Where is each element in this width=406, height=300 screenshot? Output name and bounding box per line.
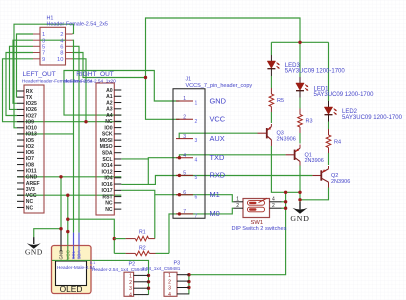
wire Q1 emitter to GND symbol [299, 166, 301, 203]
wire VCC branch to R1 R2 [68, 219, 115, 253]
wire R4 to Q2 collector [328, 148, 330, 154]
svg-text:5AY3UC09 1200-1700: 5AY3UC09 1200-1700 [314, 92, 375, 98]
svg-text:10: 10 [57, 57, 63, 63]
svg-text:IO4: IO4 [104, 176, 112, 182]
resistor R2 [114, 252, 125, 254]
ground symbol left [33, 237, 35, 244]
wire OLED right to P2 pins [91, 260, 149, 294]
svg-text:VCCS_7_pin_header_copy: VCCS_7_pin_header_copy [186, 83, 253, 89]
wire H1 pin6 to OLED SDA [73, 46, 80, 232]
Q3 pins red [258, 132, 267, 134]
connector P2 box [124, 272, 134, 296]
wire LED3 anode drop [270, 42, 272, 55]
svg-text:Header-Fema-2.54_1x20: Header-Fema-2.54_1x20 [64, 78, 117, 83]
svg-text:IO9: IO9 [26, 119, 34, 125]
wire VCC trunk J1 pin2 to LED rail [146, 18, 301, 119]
svg-text:A3: A3 [106, 107, 113, 113]
svg-text:7: 7 [183, 209, 186, 215]
wire Q3 emitter rail to GND [271, 146, 300, 192]
wire LED1 anode drop [299, 42, 301, 77]
svg-text:M0: M0 [210, 209, 220, 218]
svg-text:R4: R4 [334, 140, 341, 146]
svg-text:NC: NC [105, 201, 113, 207]
svg-text:VCC: VCC [210, 115, 226, 124]
svg-text:1: 1 [42, 32, 45, 38]
svg-text:RXD: RXD [210, 171, 226, 180]
svg-text:IO5: IO5 [26, 138, 34, 144]
wire through H1 pins 3-4 [40, 39, 66, 41]
wire LED anode rail [271, 41, 328, 43]
svg-text:IO0: IO0 [104, 125, 112, 131]
svg-text:A2: A2 [106, 100, 113, 106]
OLED pin leads inside [60, 246, 62, 252]
wire M1 from RIGHT_OUT IO17 to J1 pin6 [121, 190, 179, 194]
svg-text:1: 1 [183, 96, 186, 102]
transistor Q3 [266, 128, 268, 138]
svg-text:SDA: SDA [102, 151, 113, 157]
svg-text:9: 9 [42, 57, 45, 63]
wire TXD from RIGHT_OUT SCL to J1 pin4 [121, 158, 179, 159]
wire across OLED to P2 [52, 259, 91, 261]
svg-text:5.1: 5.1 [90, 260, 96, 265]
LED LED2 [324, 107, 332, 114]
H1 left pin stubs [33, 33, 40, 35]
wire H1 pin5 to LEFT_OUT IO26 [10, 46, 34, 109]
svg-text:2: 2 [272, 203, 275, 209]
svg-text:NC: NC [105, 119, 113, 125]
RIGHT_OUT pin stubs [114, 89, 121, 91]
svg-text:NC: NC [26, 205, 34, 211]
wire H1 pin8 to VCC rail [73, 53, 146, 78]
svg-text:IO25: IO25 [26, 101, 37, 107]
LED1 pins [299, 77, 301, 83]
wire H1 pin2 loop to LEFT_OUT IO10 [14, 24, 74, 128]
SW1 slots [248, 201, 265, 206]
svg-text:IO10: IO10 [26, 126, 37, 132]
svg-text:2N3906: 2N3906 [277, 136, 296, 142]
svg-text:MISO: MISO [100, 144, 113, 150]
svg-text:AREF: AREF [26, 181, 40, 187]
svg-text:DIP Switch 2 switches: DIP Switch 2 switches [232, 226, 287, 232]
wire R3 to Q1 collector [299, 127, 301, 133]
svg-text:2: 2 [60, 32, 63, 38]
resistor R1 [114, 238, 125, 240]
svg-text:5: 5 [183, 171, 186, 177]
header H1 box [40, 27, 66, 65]
Q2 pins red [312, 175, 320, 177]
svg-text:2: 2 [168, 279, 171, 285]
wire H1 pin4 to OLED SCL [73, 40, 74, 232]
svg-text:NC: NC [105, 207, 113, 213]
resistor R3 [298, 115, 303, 128]
svg-text:3: 3 [168, 286, 171, 292]
svg-text:1: 1 [195, 101, 198, 107]
svg-text:J1: J1 [186, 77, 192, 83]
svg-text:5AY3UC09 1200-1700: 5AY3UC09 1200-1700 [285, 68, 346, 74]
svg-text:RST: RST [102, 194, 113, 200]
svg-text:3V3: 3V3 [26, 187, 35, 193]
wire GND symbol left to OLED GND [34, 229, 61, 238]
wire SW1 pin3 to net [282, 207, 286, 209]
wire SW1 pin4 to net [282, 201, 286, 203]
svg-text:IO13: IO13 [26, 132, 37, 138]
junction dots [144, 76, 147, 79]
wire TXD stub drop [147, 159, 149, 185]
svg-text:R2: R2 [139, 245, 146, 251]
svg-text:5AY3UC09 1200-1700: 5AY3UC09 1200-1700 [342, 115, 403, 121]
svg-text:7: 7 [42, 51, 45, 57]
P3 pin stubs [177, 274, 189, 276]
svg-text:SCL: SCL [102, 157, 112, 163]
svg-text:1: 1 [168, 273, 171, 279]
connector J1 box [173, 89, 205, 219]
svg-text:IO17: IO17 [102, 188, 113, 194]
svg-text:3: 3 [129, 286, 132, 292]
svg-text:M1: M1 [210, 190, 220, 199]
svg-text:3: 3 [42, 38, 45, 44]
wire Q2 emitter loop [300, 188, 329, 200]
svg-text:VCC: VCC [26, 193, 37, 199]
svg-text:3: 3 [183, 134, 186, 140]
svg-text:4: 4 [129, 293, 132, 299]
LED LED3 [267, 61, 275, 68]
wire OLED SDA purple segment [78, 233, 80, 246]
wire M0 J1 pin7 to R2 [169, 214, 179, 254]
svg-text:IO8: IO8 [26, 162, 34, 168]
svg-text:2N3906: 2N3906 [305, 158, 324, 164]
svg-text:RX: RX [26, 89, 34, 95]
wire R5 to Q3 collector [270, 107, 272, 113]
svg-text:2: 2 [236, 203, 239, 209]
wire H1 pin9 long bus to RIGHT_OUT NC [3, 59, 122, 122]
wire VCC column to OLED [67, 195, 69, 246]
svg-text:2.54_1x4_C59481: 2.54_1x4_C59481 [142, 266, 181, 271]
OLED module box [52, 246, 92, 294]
resistor R4 [326, 135, 331, 148]
wire IO13 row to channel [17, 133, 73, 135]
svg-text:4: 4 [195, 157, 198, 163]
DIP switch SW1 box [243, 199, 270, 218]
header RIGHT_OUT box [96, 83, 114, 215]
wire AUX J1 pin3 to Q3 base [179, 133, 257, 138]
svg-text:TXD: TXD [210, 153, 225, 162]
svg-text:5: 5 [195, 175, 198, 181]
svg-text:IO14: IO14 [102, 163, 113, 169]
svg-text:IO7: IO7 [26, 156, 34, 162]
svg-text:7: 7 [195, 214, 198, 220]
transistor Q1 [294, 150, 296, 160]
svg-text:2: 2 [195, 119, 198, 125]
svg-text:Header-2.54_1x4_C59481: Header-2.54_1x4_C59481 [92, 267, 148, 272]
wire H1 pin10 down to bus [73, 59, 87, 122]
H1 right pin stubs [66, 33, 73, 35]
svg-text:R1: R1 [139, 230, 146, 236]
svg-text:NC: NC [26, 199, 34, 205]
wire M1 to SW1 pin1 [179, 195, 233, 202]
svg-text:2: 2 [183, 115, 186, 121]
svg-text:GND: GND [290, 214, 309, 223]
wire H1 pin3 to LEFT_OUT IO25 [13, 40, 33, 103]
svg-text:IO16: IO16 [102, 182, 113, 188]
svg-text:1: 1 [236, 197, 239, 203]
connector P3 box [164, 272, 177, 296]
wire GND row LEFT_OUT to RIGHT_OUT IO4 [17, 176, 121, 178]
svg-text:LEFT_OUT: LEFT_OUT [23, 71, 56, 78]
svg-text:A0: A0 [106, 88, 113, 94]
svg-text:GND: GND [210, 96, 226, 105]
SW1 left pin stubs [234, 201, 244, 203]
svg-text:3: 3 [195, 138, 198, 144]
svg-text:2: 2 [129, 280, 132, 286]
wire OLED SCL purple segment [73, 233, 75, 246]
LED LED1 [296, 83, 304, 90]
svg-text:6: 6 [183, 190, 186, 196]
svg-text:TX: TX [26, 95, 33, 101]
svg-text:2N3906: 2N3906 [331, 179, 350, 185]
svg-text:1: 1 [129, 273, 132, 279]
svg-text:6: 6 [195, 194, 198, 200]
J1 pin stubs and numbers [176, 100, 193, 102]
wire M1 branch down to R1 [154, 195, 156, 239]
wire GND column to OLED [60, 177, 62, 229]
wire H1 pin7 to LEFT_OUT IO27 [6, 53, 33, 116]
SW1 right pin stubs [270, 201, 282, 203]
Q1 pins red [286, 154, 294, 156]
svg-text:IO6: IO6 [26, 150, 34, 156]
svg-text:IO27: IO27 [26, 113, 37, 119]
svg-text:4: 4 [272, 197, 275, 203]
svg-text:GND: GND [26, 175, 38, 181]
svg-text:5: 5 [42, 45, 45, 51]
svg-text:MOSI: MOSI [100, 138, 114, 144]
wire OLED GND pin [60, 229, 62, 246]
wire RXD from RIGHT_OUT IO16 to J1 pin5 and Q2 base [121, 176, 312, 185]
svg-text:IO12: IO12 [102, 169, 113, 175]
svg-text:AUX: AUX [210, 134, 225, 143]
svg-text:A1: A1 [106, 94, 113, 100]
ground symbol right [299, 202, 301, 209]
svg-text:IO26: IO26 [26, 107, 37, 113]
LEFT_OUT pin stubs [17, 90, 24, 92]
OLED inner display [56, 261, 87, 286]
svg-text:OLED: OLED [60, 284, 83, 294]
svg-text:R3: R3 [306, 119, 313, 125]
wire H1 pin1 to LEFT_OUT TX [17, 34, 34, 97]
svg-text:SCK: SCK [102, 132, 113, 138]
transistor Q2 [320, 170, 322, 180]
wire TXD hook to Q1 base [179, 155, 285, 158]
svg-text:Header-Female-2.54_2x5: Header-Female-2.54_2x5 [47, 21, 108, 27]
wire VCC row LEFT_OUT to RIGHT_OUT RST [17, 194, 121, 196]
wire J1 pin1 GND net to RIGHT_OUT A4 [64, 71, 179, 116]
wire M0 to SW1 pin2 [179, 208, 233, 214]
svg-text:GND: GND [25, 248, 43, 257]
svg-text:RIGHT_OUT: RIGHT_OUT [76, 71, 114, 78]
P2 pin stubs [134, 274, 149, 276]
wire P3 pins to SW1 net [189, 192, 286, 294]
wire LED2 anode drop [328, 42, 330, 101]
svg-text:6: 6 [60, 45, 63, 51]
svg-text:IO2: IO2 [26, 144, 34, 150]
svg-text:A4: A4 [106, 113, 113, 119]
resistor R5 [269, 94, 274, 107]
LED3 pins [270, 55, 272, 61]
svg-text:R5: R5 [277, 98, 284, 104]
svg-text:4: 4 [183, 153, 186, 159]
LED2 pins [328, 101, 330, 107]
svg-text:IO11: IO11 [26, 168, 37, 174]
svg-text:4: 4 [168, 292, 171, 298]
header LEFT_OUT box [24, 85, 44, 213]
svg-text:8: 8 [60, 51, 63, 57]
